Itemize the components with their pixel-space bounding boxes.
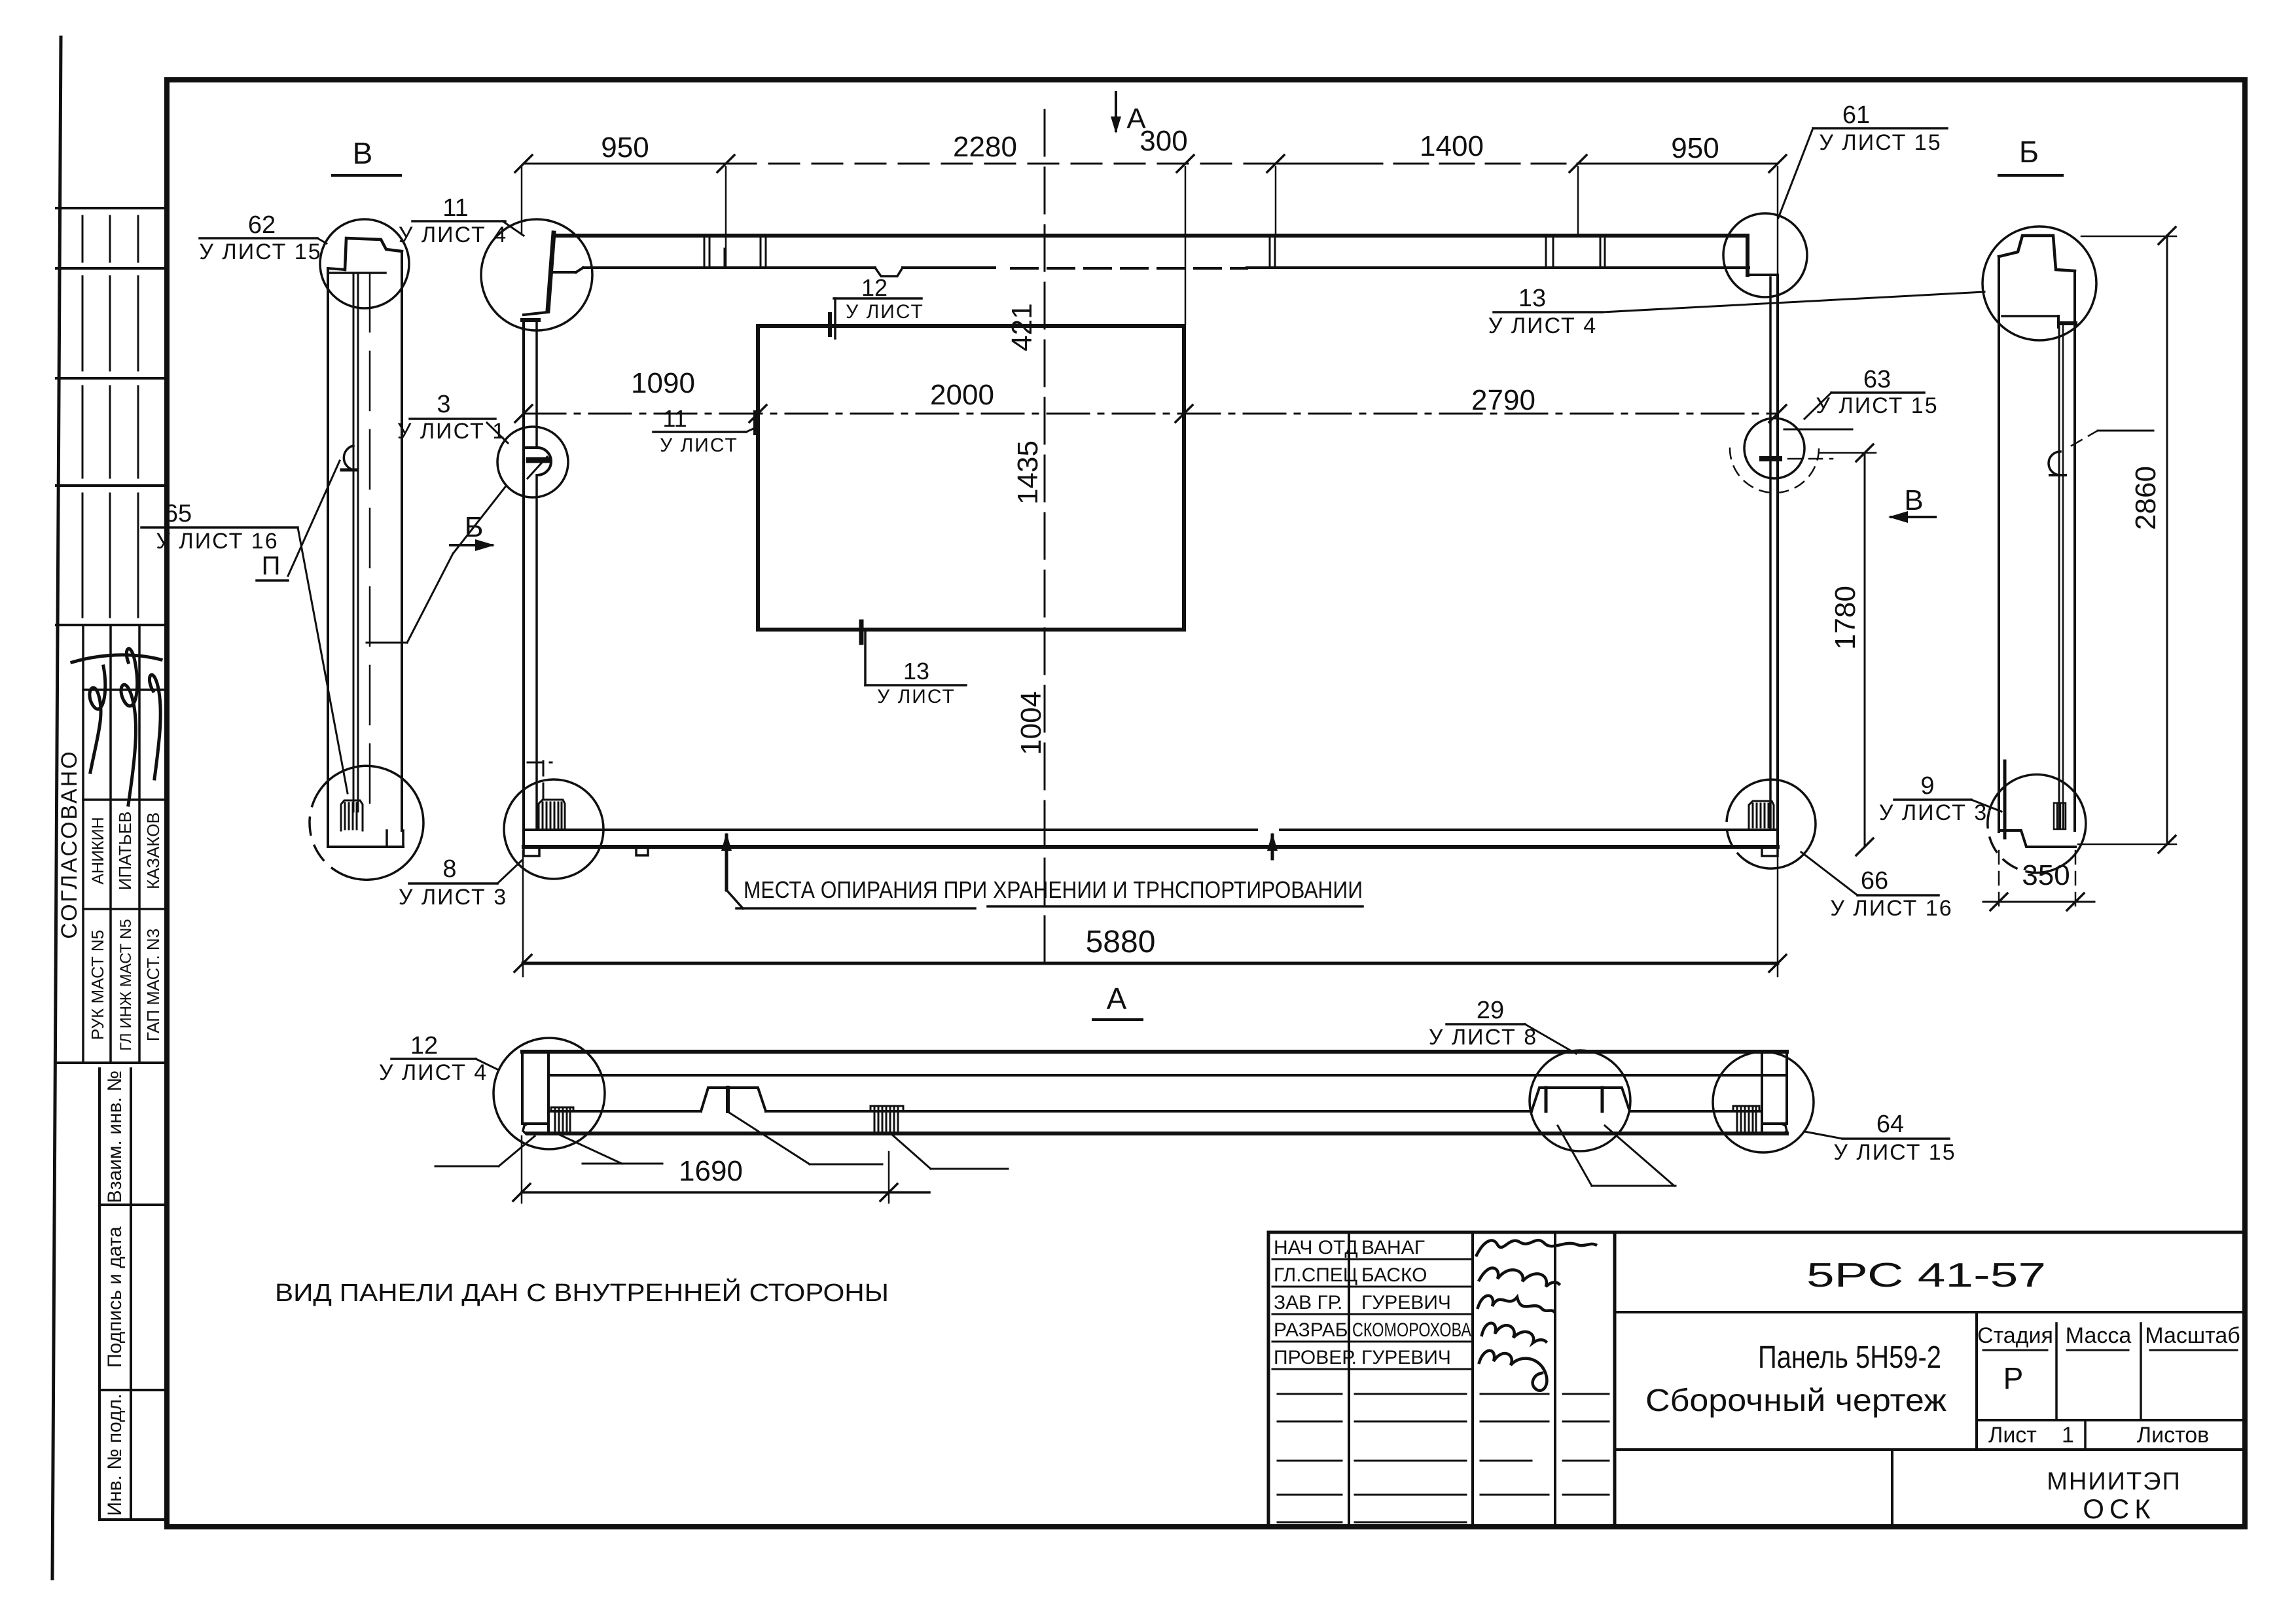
callout 13 u list (window bottom) — [861, 622, 966, 707]
svg-text:300: 300 — [1139, 125, 1187, 157]
svg-text:13: 13 — [903, 658, 929, 685]
svg-text:ВИД ПАНЕЛИ ДАН С ВНУТРЕННЕ: ВИД ПАНЕЛИ ДАН С ВНУТРЕННЕЙ СТОРОНЫ — [275, 1277, 889, 1307]
svg-text:ГЛ ИНЖ МАСТ N5: ГЛ ИНЖ МАСТ N5 — [117, 919, 135, 1051]
view B top cap — [1999, 236, 2075, 271]
view V top detail circle 62 — [320, 219, 409, 308]
svg-text:У ЛИСТ: У ЛИСТ — [660, 435, 738, 456]
view V top cap — [345, 238, 402, 270]
signature table row lines — [1272, 1259, 1473, 1369]
svg-text:1090: 1090 — [631, 367, 695, 399]
callout 62 u list 15 — [199, 211, 327, 264]
approver signatures scribbles — [72, 649, 161, 805]
svg-text:2280: 2280 — [953, 131, 1017, 163]
svg-text:66: 66 — [1861, 867, 1888, 895]
callout 11 u list 4 (top-left corner) — [399, 194, 524, 247]
view V inner rib lines — [353, 273, 355, 811]
svg-text:ВАНАГ: ВАНАГ — [1361, 1237, 1425, 1258]
plan: bottom rail outer edge — [524, 845, 1778, 849]
plan: top rail relief mark — [875, 268, 903, 276]
svg-text:АНИКИН: АНИКИН — [89, 817, 107, 884]
signature table name texts — [1352, 1237, 1471, 1368]
svg-text:П: П — [262, 552, 281, 580]
svg-text:СОГЛАСОВАНО: СОГЛАСОВАНО — [57, 749, 82, 938]
svg-text:Масса: Масса — [2066, 1323, 2132, 1348]
section A top line — [522, 1050, 1787, 1054]
view B corner bracket detail — [2003, 761, 2007, 838]
view B notch leader — [2072, 431, 2098, 446]
section A hatched pad middle — [870, 1106, 903, 1132]
svg-text:МЕСТА ОПИРАНИЯ ПРИ ХРАНЕНИИ: МЕСТА ОПИРАНИЯ ПРИ ХРАНЕНИИ И ТРНСПОРТИР… — [744, 876, 1363, 903]
detail circle 63 right mid — [1744, 418, 1804, 478]
plan: top rail inner edge — [583, 268, 1749, 268]
svg-text:Сборочный чертеж: Сборочный чертеж — [1645, 1383, 1946, 1418]
svg-text:У ЛИСТ 15: У ЛИСТ 15 — [199, 240, 321, 264]
bottom dimension 5880 line — [523, 962, 1778, 965]
svg-text:У ЛИСТ 4: У ЛИСТ 4 — [1488, 313, 1597, 338]
svg-text:У ЛИСТ 15: У ЛИСТ 15 — [1819, 130, 1941, 155]
svg-text:5РС 41-57: 5РС 41-57 — [1806, 1257, 2046, 1294]
section A hatched pad right — [1733, 1106, 1759, 1132]
svg-text:ИПАТЬЕВ: ИПАТЬЕВ — [115, 811, 135, 890]
title block vertical lines — [1267, 1232, 1270, 1527]
callout 66 u list 16 (plan bottom-right) — [1801, 852, 1953, 921]
detail circle 11 top-left corner — [481, 219, 592, 330]
detail circle 8 bottom-left corner — [504, 779, 603, 879]
section A leaders right bump — [1558, 1126, 1592, 1186]
horizontal centerline dimension line (1090/2000/2790) — [524, 413, 1778, 415]
detail circle 66 bottom-right corner — [1729, 779, 1816, 868]
callout 9 u list 3 (view B bottom) — [1879, 772, 2001, 825]
svg-text:Панель 5Н59-2: Панель 5Н59-2 — [1758, 1340, 1941, 1375]
view B strip right edge — [2073, 271, 2076, 830]
mesta opiraniya underline — [736, 907, 975, 910]
section A leader mid crack — [729, 1113, 810, 1164]
section A leader mid pad — [891, 1134, 931, 1169]
svg-text:11: 11 — [442, 194, 468, 222]
svg-text:2860: 2860 — [2130, 466, 2162, 530]
plan: corner foot tabs below bottom edge — [524, 847, 539, 856]
callout 29 u list 8 (section A right) — [1429, 997, 1576, 1054]
svg-text:У ЛИСТ 16: У ЛИСТ 16 — [156, 529, 278, 554]
section A right end block — [1785, 1052, 1788, 1124]
view V bottom detail circle 65 — [320, 766, 423, 880]
svg-text:У ЛИСТ 4: У ЛИСТ 4 — [379, 1060, 488, 1085]
svg-text:Подпись и дата: Подпись и дата — [104, 1226, 126, 1368]
svg-text:950: 950 — [1671, 132, 1719, 164]
section A detail circle 12 left — [493, 1038, 605, 1149]
signature table empty row dashes — [1278, 1394, 1609, 1522]
5880 slash ticks — [514, 955, 531, 972]
view B bottom hatched pad — [2054, 803, 2066, 829]
svg-text:У ЛИСТ 15: У ЛИСТ 15 — [1816, 393, 1938, 418]
svg-text:1: 1 — [2062, 1423, 2074, 1448]
svg-text:1004: 1004 — [1015, 691, 1047, 755]
svg-text:1780: 1780 — [1829, 586, 1861, 650]
svg-text:Взаим. инв. №: Взаим. инв. № — [104, 1071, 126, 1204]
svg-text:Р: Р — [2003, 1361, 2024, 1395]
svg-text:А: А — [1126, 103, 1146, 135]
svg-text:КАЗАКОВ: КАЗАКОВ — [143, 812, 163, 889]
section A web bottom line — [548, 1110, 1762, 1113]
view B strip left edge — [1998, 257, 2000, 832]
svg-text:Стадия: Стадия — [1977, 1323, 2053, 1348]
svg-text:Масштаб: Масштаб — [2145, 1323, 2240, 1348]
svg-text:12: 12 — [410, 1032, 438, 1060]
plan: top-right corner post — [1746, 236, 1749, 275]
plan: top-left corner post — [548, 233, 554, 311]
svg-text:У ЛИСТ 1: У ЛИСТ 1 — [397, 419, 506, 444]
support arrow left — [725, 835, 728, 890]
svg-text:У ЛИСТ 4: У ЛИСТ 4 — [399, 223, 507, 247]
svg-text:12: 12 — [861, 274, 888, 301]
detail 63 leader horizontal — [1784, 429, 1852, 431]
callout 11 u list (window left) — [653, 405, 758, 456]
callout 63 u list 15 (right mid) — [1804, 366, 1939, 419]
callout 13 u list 4 (view B top) — [1488, 285, 1984, 338]
svg-text:421: 421 — [1006, 303, 1038, 351]
svg-text:65: 65 — [164, 500, 192, 527]
view B inner rib lines — [2058, 325, 2060, 829]
section A detail circle mid-right — [1530, 1050, 1630, 1151]
plan: right edge double line — [1776, 275, 1779, 847]
svg-text:5880: 5880 — [1086, 925, 1156, 959]
top dimension line — [524, 163, 1778, 165]
title block outer top line — [1268, 1231, 2245, 1234]
support arrow right — [1271, 835, 1274, 859]
callout 12 u list (window top) — [830, 274, 924, 338]
svg-text:63: 63 — [1863, 366, 1891, 393]
detail circle 3 left mid — [497, 427, 568, 497]
svg-text:Инв. № подл.: Инв. № подл. — [104, 1394, 126, 1516]
svg-text:У ЛИСТ: У ЛИСТ — [846, 301, 924, 323]
svg-text:1435: 1435 — [1012, 440, 1044, 505]
plan: top rail outer edge — [556, 234, 1748, 238]
section A rib bump 1 — [701, 1088, 766, 1111]
page left edge line — [52, 37, 61, 1578]
detail 3 inner mark — [525, 446, 538, 449]
support pad hatched block bottom-right — [1749, 801, 1774, 829]
svg-text:У ЛИСТ 3: У ЛИСТ 3 — [1879, 800, 1988, 825]
left stamp column box dividers — [56, 208, 167, 1063]
5880 extension lines — [522, 851, 524, 976]
svg-text:ЗАВ ГР.: ЗАВ ГР. — [1274, 1292, 1342, 1313]
right dimension 1780 — [1864, 453, 1866, 847]
view V notch P — [344, 446, 353, 470]
svg-text:Б: Б — [2019, 135, 2039, 169]
svg-text:Лист: Лист — [1988, 1423, 2037, 1448]
detail 63 inner mark — [1762, 456, 1780, 461]
section A rib bump 2 — [1532, 1088, 1630, 1111]
svg-text:62: 62 — [248, 211, 276, 239]
svg-text:64: 64 — [1876, 1111, 1904, 1138]
right dimension 2860 — [2166, 236, 2168, 844]
svg-text:БАСКО: БАСКО — [1361, 1264, 1427, 1286]
plan: left edge double line — [522, 320, 525, 847]
svg-text:У ЛИСТ 15: У ЛИСТ 15 — [1833, 1140, 1956, 1165]
section A leader left pad — [560, 1135, 622, 1164]
top dim slash ticks — [515, 155, 1786, 172]
svg-text:РУК МАСТ N5: РУК МАСТ N5 — [88, 930, 107, 1040]
signature scribbles — [1477, 1240, 1596, 1391]
view V bottom hatched pad — [341, 800, 363, 830]
centerline slash ticks — [515, 405, 1786, 422]
svg-text:13: 13 — [1518, 285, 1546, 312]
svg-text:А: А — [1107, 982, 1127, 1016]
callout 64 u list 15 (section A right corner) — [1804, 1111, 1956, 1165]
vertical axis line A — [1044, 110, 1046, 961]
section A dimension 1690 — [522, 1191, 929, 1194]
svg-text:РАЗРАБ: РАЗРАБ — [1274, 1319, 1348, 1341]
plan: top rail joint marks — [704, 237, 1605, 266]
svg-text:ПРОВЕР.: ПРОВЕР. — [1274, 1347, 1357, 1368]
svg-text:ГЛ.СПЕЦ: ГЛ.СПЕЦ — [1274, 1264, 1357, 1286]
svg-text:950: 950 — [601, 132, 649, 164]
svg-text:В: В — [353, 136, 373, 170]
view B bottom detail circle 9 — [1990, 774, 2086, 872]
signature table role texts — [1274, 1237, 1358, 1368]
svg-text:9: 9 — [1920, 772, 1934, 800]
svg-text:61: 61 — [1842, 101, 1870, 129]
lower stamp boxes — [99, 1069, 167, 1520]
callout 12 u list 4 (section A left) — [379, 1032, 499, 1085]
callout 8 u list 3 (plan bottom-left) — [399, 855, 522, 910]
support pad hatched block bottom-left — [539, 800, 565, 830]
svg-text:ГУРЕВИЧ: ГУРЕВИЧ — [1361, 1292, 1451, 1313]
svg-text:11: 11 — [662, 405, 687, 432]
soglasovano grid — [83, 625, 167, 1063]
svg-text:У ЛИСТ: У ЛИСТ — [877, 686, 956, 707]
section mark A top arrow — [1115, 92, 1117, 131]
svg-text:29: 29 — [1477, 997, 1504, 1024]
section A leader left foot — [499, 1136, 535, 1166]
section A second line — [548, 1074, 1787, 1077]
title area dividers — [1615, 1311, 2245, 1313]
section A detail circle 64 right — [1713, 1052, 1814, 1152]
svg-text:350: 350 — [2022, 859, 2070, 891]
detail circle 61 top-right corner — [1723, 213, 1807, 297]
view V strip left edge — [327, 270, 329, 847]
svg-text:ОСК: ОСК — [2083, 1493, 2155, 1524]
section A left foot nub — [523, 1124, 537, 1134]
window opening — [758, 326, 1184, 630]
svg-text:1690: 1690 — [679, 1155, 743, 1187]
svg-text:У ЛИСТ 8: У ЛИСТ 8 — [1429, 1025, 1537, 1050]
svg-text:2000: 2000 — [930, 379, 994, 411]
dimension 350 — [1983, 901, 2094, 903]
svg-text:1400: 1400 — [1420, 130, 1484, 162]
view B bottom step foot — [1999, 830, 2075, 847]
svg-text:У ЛИСТ 16: У ЛИСТ 16 — [1830, 896, 1952, 921]
svg-text:МНИИТЭП: МНИИТЭП — [2047, 1468, 2181, 1495]
section A hatched pad left — [551, 1107, 573, 1132]
view B notch — [2049, 452, 2060, 475]
svg-text:8: 8 — [442, 855, 456, 883]
svg-text:СКОМОРОХОВА: СКОМОРОХОВА — [1352, 1319, 1471, 1341]
svg-text:Листов: Листов — [2137, 1423, 2209, 1448]
callout 3 u list 1 (left mid) — [397, 391, 508, 444]
svg-text:ГАП МАСТ. N3: ГАП МАСТ. N3 — [143, 929, 163, 1041]
support pad hidden contour dashes — [543, 761, 545, 800]
section A left end block — [521, 1052, 524, 1124]
top dim extension lines — [522, 167, 1778, 325]
plan: bottom rail inner edge — [524, 829, 1257, 831]
svg-text:ГУРЕВИЧ: ГУРЕВИЧ — [1361, 1347, 1451, 1368]
view V strip right edge — [401, 251, 403, 830]
callout 61 u list 15 (top-right corner) — [1778, 101, 1947, 218]
svg-text:НАЧ ОТД: НАЧ ОТД — [1274, 1237, 1358, 1258]
svg-text:3: 3 — [437, 391, 450, 418]
view B top detail circle 13 — [1982, 226, 2096, 340]
section A bottom line — [528, 1132, 1787, 1135]
left stamp inner vertical ticks (empty rows) — [82, 216, 138, 617]
callout 65 u list 16 (view V bottom) — [141, 500, 348, 793]
view V bottom edge and foot — [329, 846, 403, 848]
svg-text:У ЛИСТ 3: У ЛИСТ 3 — [399, 885, 507, 910]
svg-text:2790: 2790 — [1471, 384, 1535, 416]
